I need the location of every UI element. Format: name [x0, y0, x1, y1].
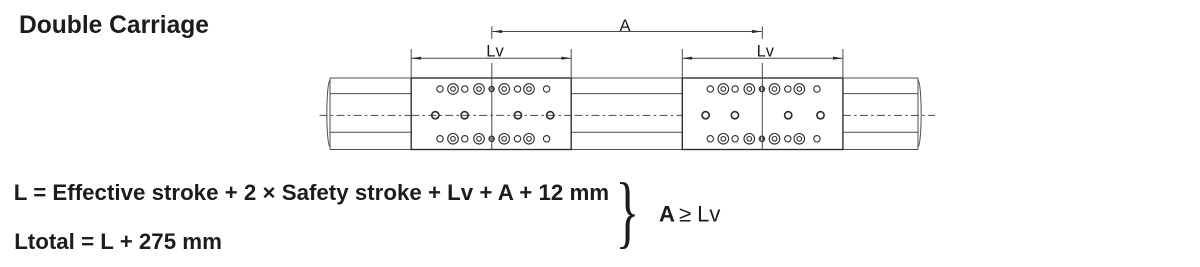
rail inner edge lines [330, 94, 918, 133]
carriage 2 middle hole row [702, 112, 824, 119]
dimension A line [492, 31, 762, 33]
svg-text:Lv: Lv [486, 43, 504, 61]
svg-text:}: } [616, 168, 640, 256]
carriage 1 outline [411, 78, 571, 150]
svg-text:L = Effective stroke + 2 × Saf: L = Effective stroke + 2 × Safety stroke… [14, 180, 609, 205]
carriage 1 vertical centerline [491, 26, 493, 149]
svg-text:A: A [659, 202, 675, 227]
carriage 1 bottom hole row [437, 134, 550, 145]
svg-text:Double Carriage: Double Carriage [19, 12, 209, 39]
carriage 1 middle hole row [432, 112, 554, 119]
Lv dimension carriage 2 [682, 49, 843, 78]
slot marks in center holes [490, 87, 763, 141]
rail right end arc [918, 81, 921, 147]
svg-text:≥ Lv: ≥ Lv [679, 202, 720, 227]
rail left end arc [327, 81, 330, 147]
carriage 2 outline [682, 78, 843, 150]
dimension A arrowheads [492, 30, 502, 33]
Lv dimension carriage 1 [411, 49, 571, 78]
svg-text:Ltotal = L + 275 mm: Ltotal = L + 275 mm [14, 229, 222, 254]
rail body outline [330, 78, 918, 150]
carriage 1 top hole row [437, 84, 550, 95]
svg-text:Lv: Lv [757, 43, 775, 61]
carriage 2 top hole row [707, 84, 820, 95]
carriage 2 bottom hole row [707, 134, 820, 145]
svg-text:A: A [619, 17, 630, 35]
center dash-dot line [320, 114, 936, 116]
carriage 1 dash-dot centerline horizontal [411, 114, 571, 116]
carriage 2 vertical centerline [761, 26, 763, 149]
